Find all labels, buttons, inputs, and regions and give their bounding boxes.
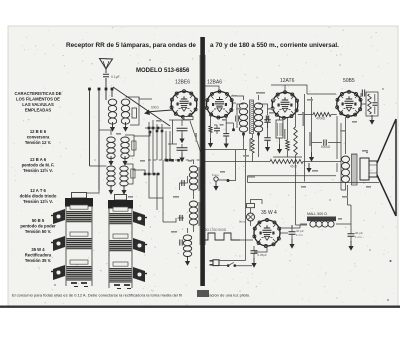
junction dot cluster (148, 127, 151, 130)
gang frame wires (149, 160, 176, 222)
power switch (227, 264, 230, 267)
35W4 surrounding wires (254, 161, 307, 252)
junction dots on coupling line (166, 159, 169, 162)
heater bus wires (248, 142, 380, 183)
left bus wires (90, 90, 113, 190)
35W4 cathode cap (251, 251, 258, 253)
RF choke 1 (189, 166, 197, 172)
oscillator coils row2 (107, 166, 115, 171)
AVC diagonal wire (113, 87, 170, 126)
IF transformer T2 (239, 103, 247, 109)
page bottom edge (0, 306, 400, 308)
coupling dashes (148, 159, 202, 161)
speaker cone (377, 119, 396, 216)
detector resistor vertical (294, 127, 298, 155)
12BA6 plate wires (205, 86, 236, 103)
grid arrow wire (146, 110, 172, 112)
antenna (100, 59, 113, 70)
oscillator coils row1 (107, 137, 115, 142)
coupling cap to 50B5 (324, 140, 326, 146)
tuning gang section A (72, 193, 87, 199)
RF choke 2 (189, 201, 197, 207)
electrolytic C1 (291, 225, 293, 240)
L2 shunt box with resistor (126, 97, 140, 125)
output transformer (342, 156, 350, 163)
T2 wires (231, 95, 268, 138)
50B5 cathode R/C pair (361, 92, 378, 116)
fold crease dark bar (200, 37, 205, 286)
electrolytic C2 (350, 230, 352, 242)
50B5 plate blocking cap (358, 93, 367, 97)
junction dots row (88, 88, 91, 91)
T2 secondary return + diode load resistor (242, 133, 245, 136)
scattered tiny value labels (236, 108, 242, 110)
speaker driver (360, 158, 369, 180)
antenna coil L1 (108, 99, 116, 105)
12BA6 screen cap (226, 114, 233, 140)
12AT6 volume pot (276, 120, 283, 138)
12BA6 cathode resistor (210, 114, 212, 140)
12BE6 bypass cap 2 (177, 148, 188, 150)
osc grid diagonal (190, 121, 201, 153)
pilot lamp (247, 213, 255, 221)
antenna series capacitor (103, 74, 109, 76)
12BA6 bypass cap (214, 125, 217, 134)
tuning gang section B (115, 195, 127, 201)
phono jack (214, 177, 218, 181)
12AT6 top wires (271, 85, 336, 94)
bus wires (202, 150, 302, 261)
ladder wires (149, 128, 170, 174)
12BE6 lower wires (168, 117, 191, 144)
AVC verticals (305, 94, 312, 152)
RF coil L2 (121, 99, 129, 105)
dark specks (390, 260, 392, 262)
12AT6 diode cap stack (267, 116, 269, 143)
AC plug (213, 260, 219, 266)
B+ dropping resistor (270, 160, 303, 164)
T2 side caps (236, 116, 238, 122)
grid resistor 50B5 (313, 113, 331, 117)
RF choke 3 (183, 235, 191, 240)
12BE6 bypass cap 1 (177, 128, 188, 130)
